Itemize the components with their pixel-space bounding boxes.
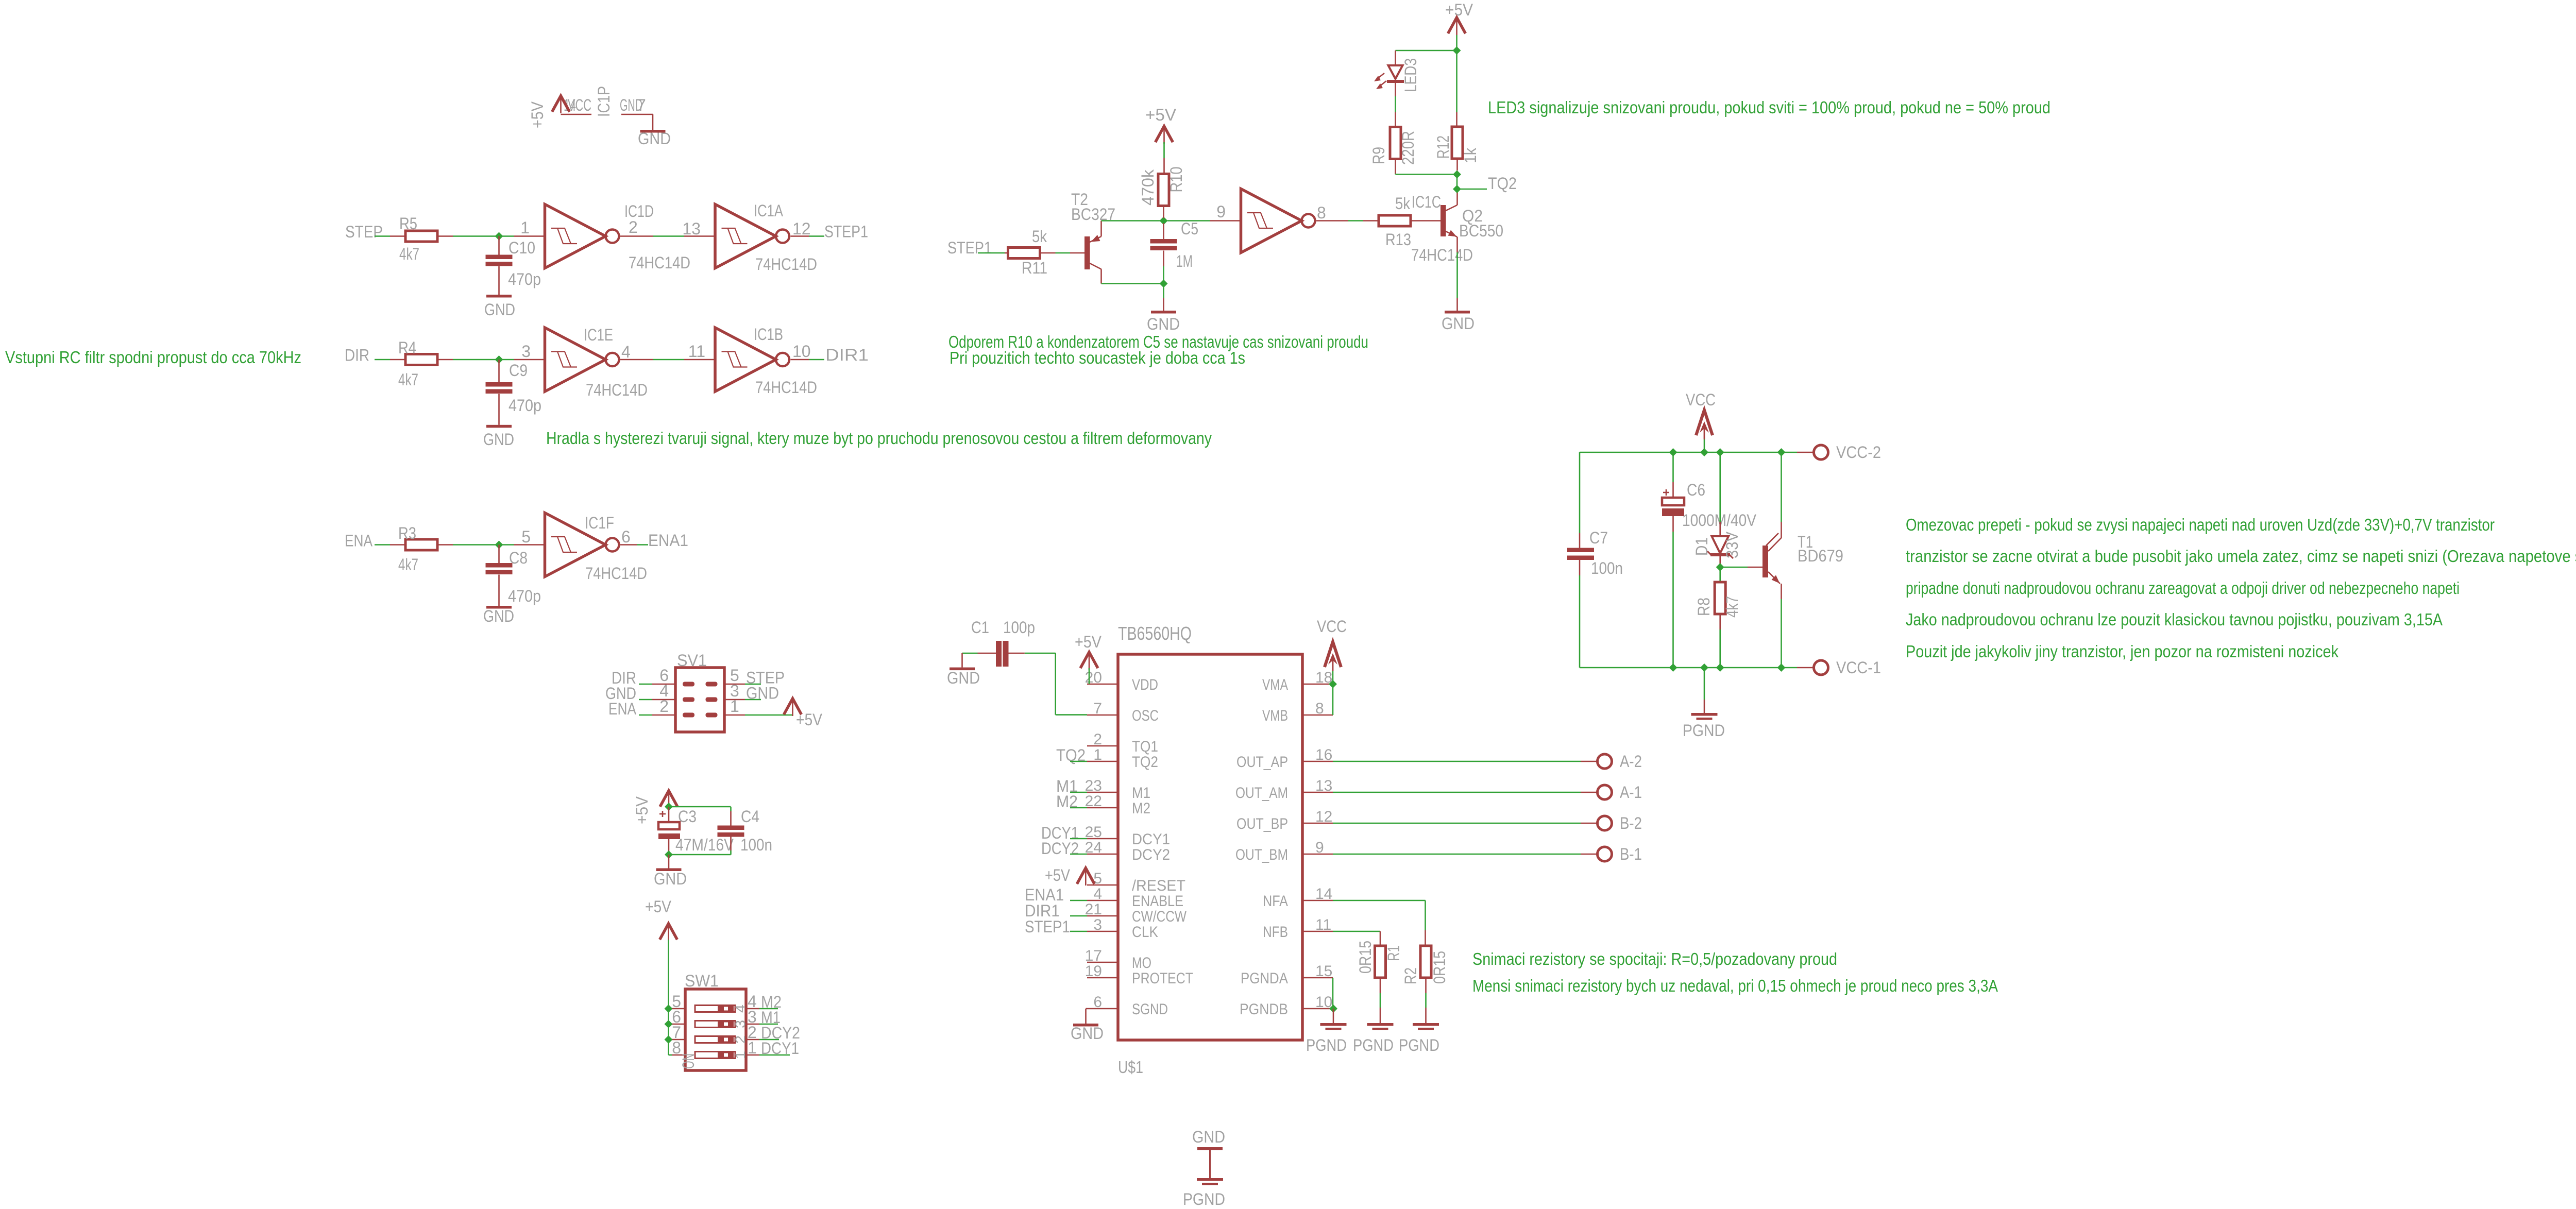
svg-text:R13: R13 [1385,230,1411,249]
node TQ2 [1056,746,1087,764]
svg-text:pripadne donuti nadproudovou o: pripadne donuti nadproudovou ochranu zar… [1906,578,2460,598]
svg-text:1: 1 [520,218,530,237]
svg-text:9: 9 [1216,202,1226,221]
svg-text:VCC-2: VCC-2 [1836,443,1881,462]
svg-text:15: 15 [1315,963,1332,980]
wire [1056,252,1071,254]
svg-text:STEP1: STEP1 [824,223,868,241]
node M2 [1056,792,1087,811]
junction [665,1035,673,1044]
svg-text:A-2: A-2 [1620,752,1642,771]
svg-text:IC1A: IC1A [754,201,784,220]
svg-text:8: 8 [1315,700,1324,717]
wire [962,653,978,654]
svg-text:BD679: BD679 [1798,547,1843,565]
node DCY2 [759,1024,800,1042]
wire [1101,283,1160,284]
svg-text:VCC: VCC [1686,390,1716,409]
resistor R3 [390,524,453,574]
svg-text:DCY2: DCY2 [1132,846,1170,863]
resistor R12 [1434,112,1480,171]
svg-text:Pouzit jde jakykoliv jiny tran: Pouzit jde jakykoliv jiny tranzistor, je… [1906,642,2338,661]
junction [1669,448,1677,456]
+5V supply [1045,866,1094,886]
wire [1456,50,1458,112]
svg-text:R2: R2 [1401,967,1420,984]
svg-text:PGND: PGND [1353,1036,1394,1054]
svg-text:ENA1: ENA1 [648,531,688,550]
svg-text:B-1: B-1 [1620,845,1642,863]
wire [1333,792,1581,793]
wire [1348,220,1364,222]
+5V supply [1145,106,1177,144]
svg-text:C3: C3 [678,807,697,826]
svg-text:+5V: +5V [633,796,651,824]
junction [1700,663,1708,672]
wire [668,804,670,807]
svg-text:GND: GND [654,870,687,888]
svg-text:DIR: DIR [345,346,369,365]
svg-text:M2: M2 [1132,800,1150,817]
power ground PGND [1183,1178,1225,1208]
svg-text:STEP1: STEP1 [1025,917,1070,936]
wire [1456,252,1458,298]
svg-text:NFA: NFA [1263,893,1288,910]
junction [495,232,503,241]
junction [1453,171,1461,179]
inverter IC1D [514,202,691,272]
svg-text:GND: GND [746,684,779,703]
capacitor C3 [658,807,734,854]
wire [375,235,390,237]
inverter IC1E [514,326,654,399]
junction [665,803,673,811]
svg-text:IC1B: IC1B [754,325,783,344]
svg-text:4: 4 [1093,886,1102,903]
svg-text:5k: 5k [1032,227,1047,246]
wire [1579,575,1581,668]
svg-text:3: 3 [733,1020,748,1028]
svg-text:OSC: OSC [1132,707,1159,724]
svg-text:7: 7 [1093,700,1102,717]
svg-text:LED3 signalizuje snizovani pro: LED3 signalizuje snizovani proudu, pokud… [1488,98,2050,117]
node STEP1 [1025,917,1087,936]
wire [653,359,684,361]
capacitor C10 [486,236,541,295]
svg-text:2: 2 [733,1035,748,1044]
capacitor C1 [971,618,1035,667]
svg-text:Mensi snimaci rezistory bych u: Mensi snimaci rezistory bych uz nedaval,… [1472,976,1998,995]
svg-text:R10: R10 [1167,167,1185,193]
svg-text:STEP: STEP [345,223,383,241]
svg-text:VMB: VMB [1262,707,1288,724]
svg-text:19: 19 [1085,963,1102,980]
svg-text:5k: 5k [1395,194,1411,213]
transistor T1 [1748,522,1843,599]
svg-text:C7: C7 [1589,529,1608,547]
junction [665,1020,673,1028]
svg-text:5: 5 [1093,870,1102,887]
svg-text:OUT_AP: OUT_AP [1236,754,1288,771]
node DIR [612,669,652,687]
wire [1672,532,1674,668]
power ground PGND [1353,1008,1394,1054]
wire [621,114,653,115]
svg-text:OUT_BM: OUT_BM [1235,846,1288,863]
capacitor C7 [1567,452,1623,577]
svg-text:GND: GND [1147,315,1180,333]
svg-text:100p: 100p [1003,618,1035,637]
junction [1669,663,1677,672]
junction [1160,217,1168,225]
svg-text:+5V: +5V [1145,106,1177,124]
wire [978,252,1005,254]
svg-text:DCY1: DCY1 [1132,831,1170,848]
svg-text:1: 1 [730,697,739,716]
+5V supply [1445,1,1473,35]
svg-text:C1: C1 [971,618,989,637]
svg-text:Hradla s hysterezi tvaruji sig: Hradla s hysterezi tvaruji signal, ktery… [546,429,1212,448]
svg-text:+5V: +5V [1445,1,1473,19]
svg-text:Snimaci rezistory se spocitaji: Snimaci rezistory se spocitaji: R=0,5/po… [1472,949,1837,968]
svg-text:C5: C5 [1181,219,1198,238]
svg-text:B-2: B-2 [1620,814,1642,832]
svg-text:SW1: SW1 [685,972,719,990]
svg-text:11: 11 [688,342,705,361]
+5V supply [645,897,677,941]
svg-text:+5V: +5V [645,897,672,916]
svg-text:10: 10 [792,342,811,361]
svg-text:1M: 1M [1176,252,1193,270]
svg-text:13: 13 [1315,777,1332,794]
svg-text:TQ2: TQ2 [1132,754,1158,771]
svg-text:4k7: 4k7 [1723,596,1741,618]
svg-text:1: 1 [1093,746,1102,763]
svg-text:R5: R5 [399,214,417,233]
svg-text:IC1F: IC1F [585,514,614,532]
svg-text:C8: C8 [509,549,528,567]
+5V supply [552,96,570,113]
svg-text:BC550: BC550 [1459,222,1503,240]
VCC supply [1686,390,1716,439]
ground [483,425,514,449]
svg-text:ENA: ENA [345,532,373,550]
svg-text:Pri pouzitich techto soucastek: Pri pouzitich techto soucastek je doba c… [950,348,1245,367]
wire [1333,761,1581,762]
wire [375,359,390,361]
svg-text:NFB: NFB [1263,924,1288,941]
svg-text:12: 12 [1315,808,1332,825]
svg-text:GND: GND [484,300,515,319]
capacitor C6 [1662,452,1757,532]
wire [669,806,731,808]
svg-text:PGNDA: PGNDA [1241,970,1288,987]
svg-text:IC1C: IC1C [1412,193,1441,211]
node DCY1 [759,1039,799,1058]
svg-text:CW/CCW: CW/CCW [1132,908,1187,925]
capacitor C4 [718,807,773,854]
svg-text:11: 11 [1315,916,1331,933]
ground [638,129,671,148]
wire [453,359,514,361]
svg-text:VCC-1: VCC-1 [1836,658,1881,677]
LED LED3 [1374,58,1420,92]
svg-text:SGND: SGND [1132,1001,1168,1018]
svg-text:33V: 33V [1723,531,1741,558]
svg-text:PGNDB: PGNDB [1240,1001,1288,1018]
svg-text:24: 24 [1085,839,1102,856]
svg-text:TQ1: TQ1 [1132,738,1158,755]
svg-text:23: 23 [1085,777,1102,794]
wire [1025,653,1056,654]
wire [453,235,514,237]
wire [1333,854,1581,855]
ground [1071,1009,1104,1043]
svg-text:OUT_AM: OUT_AM [1235,785,1288,802]
svg-text:6: 6 [621,527,631,546]
svg-text:470p: 470p [509,396,541,415]
svg-text:1: 1 [748,1038,757,1057]
svg-text:9: 9 [1315,839,1324,856]
junction [1716,663,1724,672]
svg-text:TB6560HQ: TB6560HQ [1118,623,1192,644]
svg-text:VDD: VDD [1132,676,1158,693]
svg-text:DCY2: DCY2 [1041,839,1079,858]
svg-text:VCC: VCC [568,96,591,114]
svg-text:470k: 470k [1139,169,1157,206]
power ground PGND [1306,1009,1347,1054]
wire [1333,900,1426,901]
resistor R5 [390,214,453,263]
wire [1704,439,1705,452]
wire [1723,567,1748,568]
svg-text:PGND: PGND [1399,1036,1439,1054]
junction [1453,185,1461,193]
node M1 [759,1008,781,1027]
svg-text:R9: R9 [1369,147,1388,164]
svg-text:470p: 470p [508,587,541,605]
svg-text:7: 7 [637,96,646,114]
wire [1163,142,1165,158]
svg-text:DCY1: DCY1 [761,1039,799,1058]
ground [483,606,514,625]
node STEP [745,669,785,687]
svg-text:IC1E: IC1E [584,326,613,344]
junction [1329,1004,1337,1013]
svg-text:74HC14D: 74HC14D [586,381,648,399]
svg-text:3: 3 [1093,916,1102,933]
resistor R4 [390,338,453,389]
ground [1442,298,1475,333]
wire [637,544,648,546]
wire [1456,175,1458,190]
svg-text:GND: GND [947,669,980,687]
wire [1704,668,1705,700]
resistor R1 [1356,931,1403,993]
+5V supply [633,791,677,824]
wire [668,940,669,1055]
svg-text:PROTECT: PROTECT [1132,970,1193,987]
wire [730,850,732,855]
wire [1719,629,1721,668]
svg-text:16: 16 [1315,746,1332,763]
node TQ2 [1461,174,1517,193]
svg-text:D1: D1 [1692,537,1711,556]
svg-text:0R15: 0R15 [1356,941,1375,974]
svg-text:74HC14D: 74HC14D [1411,246,1473,264]
junction [1716,448,1724,456]
svg-text:ENA: ENA [608,700,637,718]
power pins IC1P [528,86,646,128]
svg-text:2: 2 [659,697,669,716]
svg-text:LED3: LED3 [1401,58,1420,92]
svg-text:ON: ON [679,1053,698,1069]
wire [1395,174,1396,175]
wire [1456,35,1458,50]
svg-text:GND: GND [1192,1128,1225,1146]
resistor R10 [1139,158,1185,218]
svg-text:DIR1: DIR1 [825,346,869,364]
svg-text:tranzistor se zacne otvirat a: tranzistor se zacne otvirat a bude pusob… [1906,547,2576,566]
svg-text:25: 25 [1085,824,1102,841]
svg-text:20: 20 [1085,669,1102,686]
resistor R11 [1005,227,1056,277]
ground [947,653,980,687]
wire [1396,50,1457,52]
capacitor C8 [486,545,541,606]
junction [1329,680,1337,688]
node GND [745,684,779,703]
svg-text:R8: R8 [1694,598,1713,616]
svg-text:GND: GND [638,129,671,148]
svg-text:GND: GND [483,430,514,449]
wire [1380,993,1381,1008]
power ground PGND [1399,1008,1439,1054]
svg-text:PGND: PGND [1183,1190,1225,1208]
svg-text:C9: C9 [509,361,528,380]
ground [1192,1128,1225,1150]
svg-text:C4: C4 [741,807,759,826]
svg-text:47M/16V: 47M/16V [675,836,734,854]
svg-text:2: 2 [629,218,638,236]
svg-text:2: 2 [1093,731,1102,748]
svg-text:Jako nadproudovou ochranu lze: Jako nadproudovou ochranu lze pouzit kla… [1906,610,2443,629]
svg-text:100n: 100n [740,836,772,854]
svg-text:R1: R1 [1384,945,1403,961]
svg-text:TQ2: TQ2 [1488,174,1517,193]
transistor T2 [1070,190,1115,284]
wire [1089,668,1090,684]
svg-text:22: 22 [1085,793,1102,810]
terminal A-2 [1581,752,1642,771]
node DIR1 [1025,901,1087,920]
svg-text:C6: C6 [1687,481,1705,499]
ground [654,855,687,888]
wire [1101,220,1160,222]
svg-text:OUT_BP: OUT_BP [1236,815,1288,832]
svg-text:GND: GND [483,607,514,625]
resistor R8 [1694,567,1741,629]
svg-text:VCC: VCC [1317,617,1347,636]
svg-text:GND: GND [1071,1024,1104,1043]
svg-text:14: 14 [1315,886,1332,903]
svg-text:IC1D: IC1D [624,202,654,220]
resistor R13 [1363,194,1440,249]
wire [1163,287,1164,298]
svg-text:A-1: A-1 [1620,783,1642,802]
wire [375,544,390,546]
junction [495,541,503,549]
svg-text:1000M/40V: 1000M/40V [1682,511,1757,530]
junction [1777,663,1786,672]
svg-text:CLK: CLK [1132,924,1158,941]
wire [668,839,670,852]
junction [665,850,673,859]
wire [653,235,684,237]
wire [809,235,824,237]
VCC supply [1317,617,1347,671]
switch SW1 [672,972,759,1070]
resistor R9 [1369,112,1417,174]
IC U$1 TB6560HQ [1085,623,1333,1077]
svg-text:1k: 1k [1461,147,1480,163]
svg-text:4k7: 4k7 [398,555,418,574]
junction [665,1004,673,1013]
node DCY1 [1041,824,1087,842]
connector SV1 [652,651,745,732]
svg-text:IC1P: IC1P [595,86,613,117]
svg-text:74HC14D: 74HC14D [629,253,690,272]
wire [1580,452,1797,453]
wire [561,114,592,115]
wire [1085,884,1087,885]
terminal VCC-2 [1797,443,1881,462]
svg-text:4: 4 [621,343,631,361]
svg-text:3: 3 [521,342,531,361]
svg-text:470p: 470p [508,270,541,288]
svg-text:+5V: +5V [1045,866,1071,884]
power ground PGND [1683,700,1725,740]
svg-text:/RESET: /RESET [1132,877,1185,894]
svg-text:R4: R4 [398,338,416,357]
svg-text:1: 1 [733,1051,748,1059]
wire [453,544,514,546]
svg-text:74HC14D: 74HC14D [755,255,817,274]
+5V supply [1075,633,1102,670]
svg-text:+5V: +5V [796,710,823,729]
svg-text:5: 5 [521,527,531,546]
wire [1333,823,1581,824]
svg-text:U$1: U$1 [1118,1058,1143,1077]
svg-text:17: 17 [1085,947,1102,964]
inverter IC1B [684,325,817,397]
+5V supply [784,699,823,729]
svg-text:220R: 220R [1399,131,1417,165]
wire [809,359,824,361]
ground [484,295,515,319]
junction [1777,448,1786,456]
svg-text:6: 6 [1093,994,1102,1011]
junction [1160,280,1168,288]
terminal A-1 [1581,783,1642,802]
svg-text:4k7: 4k7 [399,245,419,263]
svg-text:8: 8 [1317,203,1326,222]
terminal B-2 [1581,814,1642,832]
node ENA1 [1025,886,1087,904]
wire [1781,599,1782,668]
svg-text:PGND: PGND [1306,1036,1347,1054]
svg-text:74HC14D: 74HC14D [585,564,647,583]
